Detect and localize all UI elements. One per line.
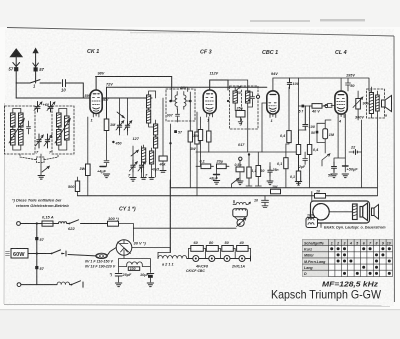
wire osc5 links — [144, 145, 152, 177]
cap C-tone 5n — [328, 162, 337, 178]
coil osc5 — [142, 148, 146, 162]
wire B+ from CY1 — [158, 252, 170, 258]
wire CY1 bottom — [119, 255, 151, 272]
wire anode to HT rail — [95, 77, 97, 91]
ground G-ck1 — [103, 174, 109, 178]
fuse F1 0,15A — [42, 215, 54, 227]
resistor R-h1 — [189, 241, 206, 259]
wire mains vertical with caps — [36, 224, 38, 285]
wire rail R1 — [170, 187, 377, 189]
node mains — [36, 222, 38, 224]
cap C-f1 25uF — [110, 273, 133, 283]
ground G-f1 — [115, 283, 121, 287]
wire avc vertical — [298, 78, 300, 145]
choke CH-n — [57, 282, 70, 285]
cap C-f2 10uF — [140, 273, 154, 282]
resistor R-h2 — [206, 241, 220, 259]
node osc junction — [112, 141, 114, 143]
coil osc2 — [147, 110, 151, 123]
ground G-osc2 — [141, 171, 166, 180]
ground G1 — [38, 176, 45, 180]
resistor R-det — [246, 167, 256, 186]
lamp/pin P3 — [224, 256, 230, 262]
coil L1b — [11, 130, 16, 146]
resistor R-cbc1 — [280, 131, 291, 144]
wire to grid rail — [16, 83, 83, 98]
coil IF1a — [175, 92, 177, 110]
resistor R-g1 — [68, 177, 80, 196]
ground G-cf — [213, 181, 219, 185]
speaker SP1 — [382, 96, 392, 112]
potentiometer P-vol — [311, 120, 335, 153]
hum pot box — [233, 209, 248, 217]
node jack avc — [325, 104, 328, 107]
resistor R-cf2 (horizontal) — [216, 160, 230, 169]
wire bus to hum — [133, 227, 236, 229]
coil hum — [233, 202, 250, 204]
earth antenna arrow — [33, 49, 39, 83]
coil osc6 — [150, 151, 154, 164]
cap marker 57 avc — [302, 105, 305, 108]
lamp/pin P4 — [239, 256, 245, 262]
resistor R-cbc2 — [262, 103, 288, 188]
resistor R-cf1 (horizontal) — [196, 160, 214, 169]
dashed link box 70 — [20, 154, 58, 163]
component box 25nF in IF2 — [236, 107, 246, 126]
wire osc coil links — [149, 91, 156, 177]
resistor R-avc4 — [290, 155, 301, 185]
coil IF2b — [246, 91, 250, 103]
wire IF1 links — [172, 87, 191, 131]
coil L2a — [19, 113, 24, 127]
transformer T-out secondary — [376, 95, 380, 111]
cap C-cf 8uF — [209, 166, 220, 180]
wire rail right verticals — [376, 116, 378, 196]
wire mains to rectifier — [90, 223, 108, 225]
cap C-k 4uF — [97, 167, 107, 174]
switch S-mains2 — [51, 250, 66, 256]
varcap VC5 — [128, 160, 137, 178]
wire tout links — [369, 87, 377, 118]
wire mains L — [20, 223, 44, 225]
resistor R-if2 — [190, 112, 199, 196]
wire HT rail A — [96, 77, 172, 90]
grid stopper box CL4 — [324, 104, 332, 108]
wire mains N — [21, 284, 57, 286]
switch S-mains1 — [53, 220, 90, 231]
hum pot circle — [237, 218, 246, 226]
dropper lamp oval — [96, 253, 108, 258]
cap C-fb 22 — [349, 146, 362, 155]
wire — [40, 82, 61, 84]
node IF1 junction — [169, 142, 171, 144]
varcap VC3 — [116, 121, 124, 131]
lamp/pin P2 — [209, 256, 215, 262]
wire tuner top rail — [16, 97, 152, 99]
varcap VC1 — [36, 134, 44, 155]
switch S-ant — [30, 80, 40, 83]
wire rect loop — [119, 224, 134, 242]
resistor R-k1 — [80, 117, 91, 196]
cap C-if1 — [176, 111, 180, 120]
resistor R-cf4 — [207, 117, 211, 152]
wire coil box R internal — [59, 109, 67, 151]
cap box C-cbc3 05n — [235, 161, 245, 181]
wire CL4 cathode — [331, 106, 345, 163]
hum pot funnel — [235, 217, 246, 221]
trimmer arrow in box R — [55, 119, 70, 143]
wire down from rails — [233, 201, 235, 204]
switch S-det — [232, 178, 239, 188]
node IF2 dots — [227, 100, 229, 102]
cap C-L1 — [27, 121, 31, 134]
varcap VC4 — [124, 121, 132, 131]
coil IF1b — [184, 92, 186, 110]
wire coil box L internal — [13, 109, 21, 151]
trimmer C-t1 — [34, 102, 50, 113]
capacitor 10 (series) — [61, 80, 66, 93]
resistor R-b1 (1W on rail) — [271, 185, 281, 194]
trimmer C-t2 — [47, 102, 55, 113]
wire spk box — [312, 192, 321, 228]
resistor R-avc2 — [296, 130, 306, 172]
varcap VC6 — [138, 160, 148, 178]
cap C-b1 — [254, 196, 269, 208]
cap C-avc — [303, 106, 316, 130]
terminal heater end — [250, 256, 252, 261]
cap C-cbc 100 — [287, 78, 299, 89]
resistor R-sg1 — [104, 119, 116, 131]
node jack IF2 — [256, 95, 259, 98]
node jack — [239, 157, 242, 160]
wire osc verticals — [120, 98, 142, 177]
wire antenna bus — [16, 82, 30, 84]
node IF2 junction — [248, 153, 250, 155]
switch S-tone — [322, 154, 330, 166]
pictorial small speaker right — [372, 205, 379, 220]
ground G-avc — [295, 182, 301, 186]
ground G-f2 — [147, 283, 153, 287]
switch arm a — [42, 166, 49, 172]
coil L3b — [57, 130, 62, 146]
tube CY1 — [116, 240, 132, 256]
antenna A1 — [11, 50, 22, 84]
wire CF3 anode — [210, 80, 228, 90]
coil L4 — [65, 116, 70, 140]
coil L2b — [19, 130, 24, 146]
wire 60W to switch — [28, 253, 52, 255]
tube CL4 — [335, 91, 347, 123]
coil L3a — [57, 113, 62, 127]
ground G-tone — [331, 174, 349, 178]
terminal mains N — [17, 283, 21, 287]
choke mains L — [58, 222, 66, 224]
tube CF3 — [203, 90, 216, 123]
trimmer arrow in box L — [9, 119, 24, 143]
cap C-k4 50uF — [343, 158, 359, 172]
wire HT heavy vertical — [169, 180, 171, 252]
resistor R-h3 — [222, 241, 235, 259]
varistor R-nt — [353, 91, 370, 116]
field coil box — [306, 214, 318, 228]
cap marker 57 lower — [35, 266, 44, 271]
cap C-det2 25n — [268, 163, 279, 181]
wire IF2 secondary down — [248, 129, 249, 167]
resistor R-avc1 (horizontal 10k) — [311, 104, 322, 114]
ground G-det — [237, 181, 273, 185]
wire below tuner — [40, 154, 42, 175]
cap C-sg1 — [104, 131, 109, 167]
terminal mains L — [17, 222, 21, 226]
choke CH1 — [119, 262, 151, 271]
wire heater chain — [187, 258, 251, 260]
wire CY1 cathode to rail — [132, 248, 171, 253]
tube CK1 — [90, 90, 102, 123]
wire CBC1 anode-side — [288, 87, 290, 130]
coil L1a — [11, 113, 16, 127]
node IF1 right — [189, 100, 192, 103]
wire AF bus — [196, 151, 299, 153]
table header text — [304, 241, 391, 276]
cap marker 57 if1 — [174, 130, 177, 133]
choke chain — [158, 256, 187, 267]
trimmer arrow IF2 — [236, 86, 240, 90]
coil osc4 — [154, 137, 158, 148]
resistor R-avc3 — [307, 106, 319, 188]
resistor R-if1 — [188, 131, 192, 188]
node on vertical — [36, 252, 38, 254]
mains lamp 60W — [6, 249, 29, 259]
wire CY1 left (dropper) — [107, 248, 116, 256]
wire dropper left — [68, 255, 96, 256]
switch S-osc2 — [131, 150, 138, 156]
tube CBC1 — [267, 91, 279, 123]
cap C-if2 — [251, 96, 255, 103]
resistor R-det2 — [255, 152, 264, 186]
node IF1 left — [169, 100, 172, 103]
wire CBC1 anode / 195V feed — [273, 78, 369, 91]
wire screen rail B — [107, 86, 267, 88]
table dots — [330, 247, 391, 275]
wire IF2 links — [228, 80, 253, 129]
cap C-avc3 22uF — [298, 152, 308, 169]
resistor R-b2 on rail — [315, 190, 326, 199]
wire IF1 primary down — [170, 124, 172, 188]
resistor R-h4 — [237, 241, 251, 259]
lamp/pin P1 — [193, 256, 199, 262]
wire grid to tuner — [83, 97, 90, 99]
transformer T-out primary — [369, 93, 373, 114]
resistor R-cy 100 — [108, 216, 120, 226]
cap C-sn anode — [341, 79, 354, 92]
switch S-n — [70, 281, 83, 287]
dashed coil box L (band filter left) — [5, 106, 75, 154]
wire avc h — [299, 105, 332, 107]
coil IF2a — [233, 91, 237, 103]
resistor R-osc (horizontal 40k) — [159, 98, 168, 170]
wire CL4 right column — [358, 116, 361, 188]
wire rail R2 — [78, 195, 378, 197]
switch S-osc1 — [117, 112, 124, 118]
ground G-osc — [130, 178, 136, 182]
coil osc3 — [154, 124, 158, 135]
cap marker 57 upper — [35, 237, 44, 242]
coil osc1 — [147, 95, 151, 108]
varcap VC2 — [44, 134, 52, 155]
resistor R-cf3 — [193, 117, 203, 166]
